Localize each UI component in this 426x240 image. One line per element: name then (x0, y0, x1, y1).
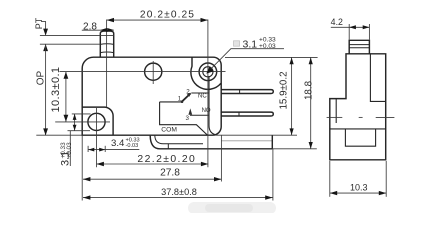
svg-text:22.2±0.20: 22.2±0.20 (137, 154, 196, 165)
svg-text:COM: COM (161, 126, 177, 133)
svg-text:10.3: 10.3 (350, 183, 368, 193)
svg-text:3.4: 3.4 (111, 138, 125, 149)
svg-text:+0.03: +0.03 (259, 43, 276, 50)
svg-text:2: 2 (186, 89, 190, 96)
svg-text:4.2: 4.2 (331, 17, 343, 27)
svg-text:3.1: 3.1 (243, 38, 258, 50)
svg-text:+0.03: +0.03 (66, 142, 73, 159)
svg-text:3: 3 (185, 115, 189, 122)
svg-text:20.2±0.25: 20.2±0.25 (140, 10, 195, 21)
svg-text:NC: NC (198, 94, 207, 100)
svg-text:NO: NO (202, 108, 211, 114)
svg-text:OP: OP (36, 70, 47, 85)
svg-text:PT: PT (34, 17, 44, 29)
svg-text:37.8±0.8: 37.8±0.8 (161, 187, 197, 197)
svg-text:15.9±0.2: 15.9±0.2 (278, 71, 289, 109)
svg-text:18.8: 18.8 (303, 80, 314, 100)
svg-text:10.3±0.1: 10.3±0.1 (50, 67, 62, 113)
svg-text:1: 1 (178, 96, 182, 103)
svg-text:27.8: 27.8 (160, 167, 180, 178)
svg-text:-0.03: -0.03 (126, 143, 139, 149)
svg-text:2.8: 2.8 (83, 21, 97, 32)
